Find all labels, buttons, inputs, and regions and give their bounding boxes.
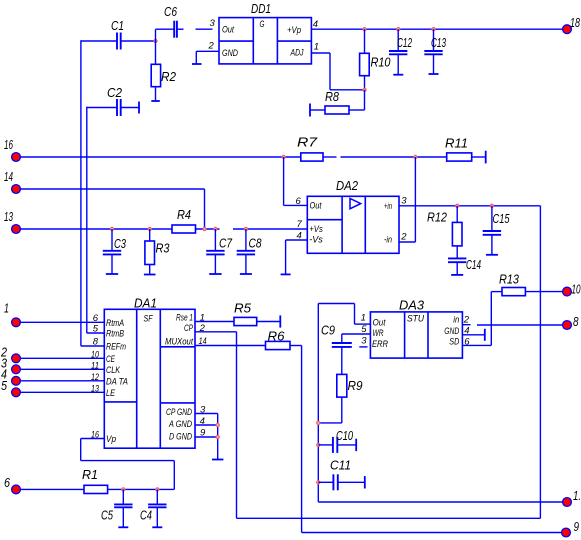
pin 4 [464,325,469,336]
pin 2 [208,41,215,52]
node junction R12 [456,204,459,207]
ground [429,73,439,75]
wire [155,29,157,42]
wire [318,501,563,503]
svg-text:C10: C10 [336,428,354,443]
resistor R2 [151,41,176,101]
IC DA1 label [134,296,157,311]
pin 6 [93,313,99,324]
svg-text:DA3: DA3 [399,298,425,313]
capacitor C12 [389,29,412,74]
wire [86,107,88,333]
svg-text:ADJ: ADJ [290,48,304,59]
wire [80,40,82,346]
resistor R1 [20,467,174,494]
terminal 4 [1,367,20,386]
node junction C7 [214,227,217,230]
pin 7 [297,219,303,230]
capacitor C14 [448,257,481,275]
capacitor C3 [103,229,127,274]
ground [144,274,156,276]
ground [212,459,223,461]
svg-text:CLK: CLK [106,365,121,375]
resistor R8 [310,89,365,117]
wire end [364,476,366,488]
pin 2 [400,232,407,243]
svg-text:1: 1 [314,42,319,53]
wire DA3 pin4 gnd [462,329,484,341]
wire end [355,439,357,451]
svg-text:A GND: A GND [168,419,192,429]
svg-text:C11: C11 [330,458,351,473]
capacitor C10 [318,428,356,453]
wire to DA2 pin6 [284,157,308,205]
pin 6 [296,196,302,207]
terminal 3 [1,356,20,374]
svg-text:C7: C7 [219,236,233,251]
svg-text:C1: C1 [111,18,124,33]
svg-text:C4: C4 [140,508,152,523]
svg-text:Rse 1: Rse 1 [176,313,193,323]
pin 4 [313,19,318,30]
pin 2 [463,315,470,326]
node junction R4/row14 [203,227,206,230]
svg-text:R9: R9 [348,378,363,393]
op-amp DA2 [307,196,399,253]
terminal 5 [1,378,20,397]
svg-text:G: G [260,19,265,30]
IC DD1 [219,18,311,64]
wire [196,228,220,230]
svg-text:8: 8 [93,337,99,348]
capacitor C8 [237,229,262,274]
wire [20,368,104,370]
ground [393,74,403,76]
svg-text:C15: C15 [493,211,511,226]
wire DA1 gnd [195,414,218,460]
svg-text:ERR: ERR [372,339,388,349]
svg-text:C12: C12 [397,35,412,50]
ground [152,526,162,528]
wire ADJ [311,53,364,90]
resistor R3 [145,229,170,275]
terminal 1 [4,301,20,327]
svg-text:C3: C3 [114,236,127,251]
svg-text:GND: GND [444,326,459,336]
resistor R10 [360,29,392,90]
ground [486,254,498,256]
wire [177,28,184,30]
svg-text:10: 10 [572,282,581,297]
IC DA3 label [399,298,425,313]
pin 14 [199,336,207,347]
wire row16 [20,156,301,158]
terminal 2 [0,345,20,363]
pin 5 [93,324,99,335]
svg-text:-Vs: -Vs [309,235,323,246]
svg-text:RtmA: RtmA [106,318,124,328]
wire [20,357,104,359]
capacitor C9 [321,323,370,375]
resistor R12 [427,206,462,259]
svg-text:R4: R4 [177,207,191,222]
svg-text:8: 8 [573,314,579,329]
wire [81,345,104,347]
svg-text:DD1: DD1 [251,1,271,16]
svg-text:DA TA: DA TA [106,377,128,387]
ground [240,273,252,275]
node junction C15 [490,204,493,207]
wire R13 to DA3 SD [462,292,491,346]
resistor R6 [195,329,302,350]
node junction C1/C6/R2 [154,39,157,42]
svg-text:R2: R2 [161,69,177,84]
pin 8 [93,337,99,348]
svg-text:SD: SD [449,337,459,347]
node junction R9 [317,421,320,424]
pin 3 [361,336,367,347]
wire [341,156,447,158]
svg-text:D GND: D GND [169,432,192,442]
svg-text:R13: R13 [499,272,520,287]
resistor R4 [172,207,196,233]
svg-text:Out: Out [222,25,234,36]
node junction D GND [216,435,219,438]
svg-text:C5: C5 [101,508,114,523]
pin 1 [200,313,205,324]
wire left vertical [317,304,319,503]
node junction C12 [397,28,400,31]
svg-text:R7: R7 [297,135,318,150]
svg-text:6: 6 [464,337,470,348]
terminal 8 [563,314,579,329]
svg-text:2: 2 [208,41,215,52]
svg-text:REFm: REFm [106,342,126,352]
svg-text:3: 3 [210,18,216,29]
wire [81,40,117,42]
svg-text:R1: R1 [82,467,98,482]
svg-text:+in: +in [384,201,392,211]
svg-text:1.: 1. [573,488,581,503]
wire row14 [20,189,204,229]
wire to DA2 pin2 [399,157,415,242]
node junction C10 [317,443,320,446]
wire [472,156,486,158]
svg-text:R5: R5 [234,301,252,316]
node junction C5 [122,488,125,491]
pin 4 [297,231,302,242]
svg-text:1: 1 [4,301,9,316]
pin 16 [91,430,100,441]
wire [156,28,175,30]
svg-text:Out: Out [373,317,386,327]
terminal 9 [562,519,579,537]
node junction C11 [317,481,320,484]
svg-text:R11: R11 [445,136,468,151]
wire [233,228,307,230]
ground [209,273,221,275]
capacitor C6 [164,4,178,38]
svg-text:5: 5 [1,378,8,393]
svg-text:6: 6 [4,475,11,490]
svg-text:SF: SF [144,314,154,325]
pin 11 [91,361,99,372]
wire [323,156,337,158]
pin 4 [200,416,205,427]
wire CP net [195,332,540,519]
node junction C4 [156,488,159,491]
svg-text:CP GND: CP GND [166,407,192,417]
svg-text:Out: Out [310,201,322,212]
svg-text:GND: GND [222,48,238,59]
ground [106,273,118,275]
svg-text:+Vs: +Vs [309,224,323,235]
wire [20,380,104,382]
svg-text:R12: R12 [427,210,448,225]
IC DD1 label [251,1,271,16]
pin 6 [464,337,470,348]
svg-text:13: 13 [4,209,13,224]
svg-text:-in: -in [384,234,392,244]
resistor R13 [491,272,563,296]
wire [196,28,213,30]
svg-text:2: 2 [400,232,407,243]
svg-text:C13: C13 [431,35,446,50]
svg-text:DA1: DA1 [134,296,157,311]
pin 1 [361,313,366,324]
capacitor C5 [101,489,133,527]
wire [20,391,104,393]
svg-text:5: 5 [93,324,99,335]
svg-text:C9: C9 [321,323,335,338]
wire Vp path [81,439,175,490]
ground [118,526,128,528]
wire +Vp rail [311,28,562,30]
svg-text:CE: CE [106,354,116,364]
svg-text:2: 2 [463,315,470,326]
svg-text:R8: R8 [325,89,340,104]
svg-text:3: 3 [401,196,407,207]
pin 2 [199,323,206,334]
capacitor C11 [318,458,365,491]
terminal 6 [4,475,20,494]
wire end [485,151,487,164]
svg-text:4: 4 [313,19,318,30]
node junction R8/R10 [363,88,366,91]
wire -Vs gnd [286,240,308,274]
wire [138,102,140,114]
svg-text:9: 9 [574,519,580,534]
capacitor C1 [111,18,124,50]
pin 3 [401,196,407,207]
terminal 10 [563,282,581,297]
node junction A GND [216,423,219,426]
terminal 16 [4,137,20,161]
pin 3 [210,18,216,29]
node junction -in [414,155,417,158]
pin 9 [200,428,206,439]
pin 10 [91,350,100,361]
ground [192,63,202,65]
resistor R5 [195,301,280,326]
wire ERR stub [359,346,367,348]
svg-text:3: 3 [361,336,367,347]
node junction R3/R4 [148,227,151,230]
svg-text:18: 18 [570,15,581,30]
svg-text:6: 6 [296,196,302,207]
capacitor C7 [206,229,232,274]
node junction R10 [363,28,366,31]
resistor R11 [445,136,472,162]
node junction C8 [244,227,247,230]
wire terminal8 [462,324,562,326]
svg-text:+Vp: +Vp [287,25,301,36]
ground [151,100,160,102]
svg-text:1: 1 [361,313,366,324]
svg-text:C14: C14 [466,257,481,272]
wire [87,332,105,334]
pin 5 [361,324,367,335]
terminal 18 [563,15,581,34]
op-amp DA2 label [336,178,359,193]
pin 3 [200,405,206,416]
IC DA1 [104,309,195,448]
wire end [279,315,281,327]
terminal 13 [4,209,20,233]
svg-text:R3: R3 [156,241,171,256]
capacitor C2 [87,85,139,116]
svg-text:WR: WR [373,328,384,338]
wire pin2 gnd [196,51,219,64]
wire [121,40,156,42]
svg-text:RtmB: RtmB [106,329,124,339]
svg-text:STU: STU [407,314,424,325]
wire +in net [399,205,540,207]
svg-text:CP: CP [184,323,193,333]
capacitor C15 [483,206,510,255]
svg-text:in: in [453,315,459,325]
svg-text:MUXout: MUXout [165,337,193,347]
ground [451,274,463,276]
wire right vertical [539,206,541,519]
svg-text:Vp: Vp [106,434,116,444]
resistor R9 [318,374,362,423]
pin 13 [91,384,100,395]
svg-text:16: 16 [4,137,13,152]
svg-text:C2: C2 [107,85,123,100]
IC DA3 [370,312,462,358]
resistor R7 [297,135,323,162]
node junction DA2 out [282,155,285,158]
terminal 14 [4,169,20,193]
wire DA3 out path [318,304,370,325]
svg-text:14: 14 [4,169,13,184]
svg-text:7: 7 [297,219,303,230]
svg-text:C6: C6 [164,4,178,19]
wire [20,321,104,323]
terminal 1 bottom [563,488,581,506]
svg-text:C8: C8 [249,236,263,251]
svg-text:R10: R10 [371,55,392,70]
wire row13 [20,228,172,230]
capacitor C13 [424,29,446,74]
svg-text:R6: R6 [268,329,286,344]
pin 12 [91,372,100,383]
node junction C3 [110,227,113,230]
ground [281,273,291,275]
svg-text:DA2: DA2 [336,178,359,193]
wire R6 to terminal 9 [302,346,562,533]
capacitor C4 [140,489,167,527]
node junction C13 [432,28,435,31]
pin 1 [314,42,319,53]
svg-text:LE: LE [106,388,116,398]
